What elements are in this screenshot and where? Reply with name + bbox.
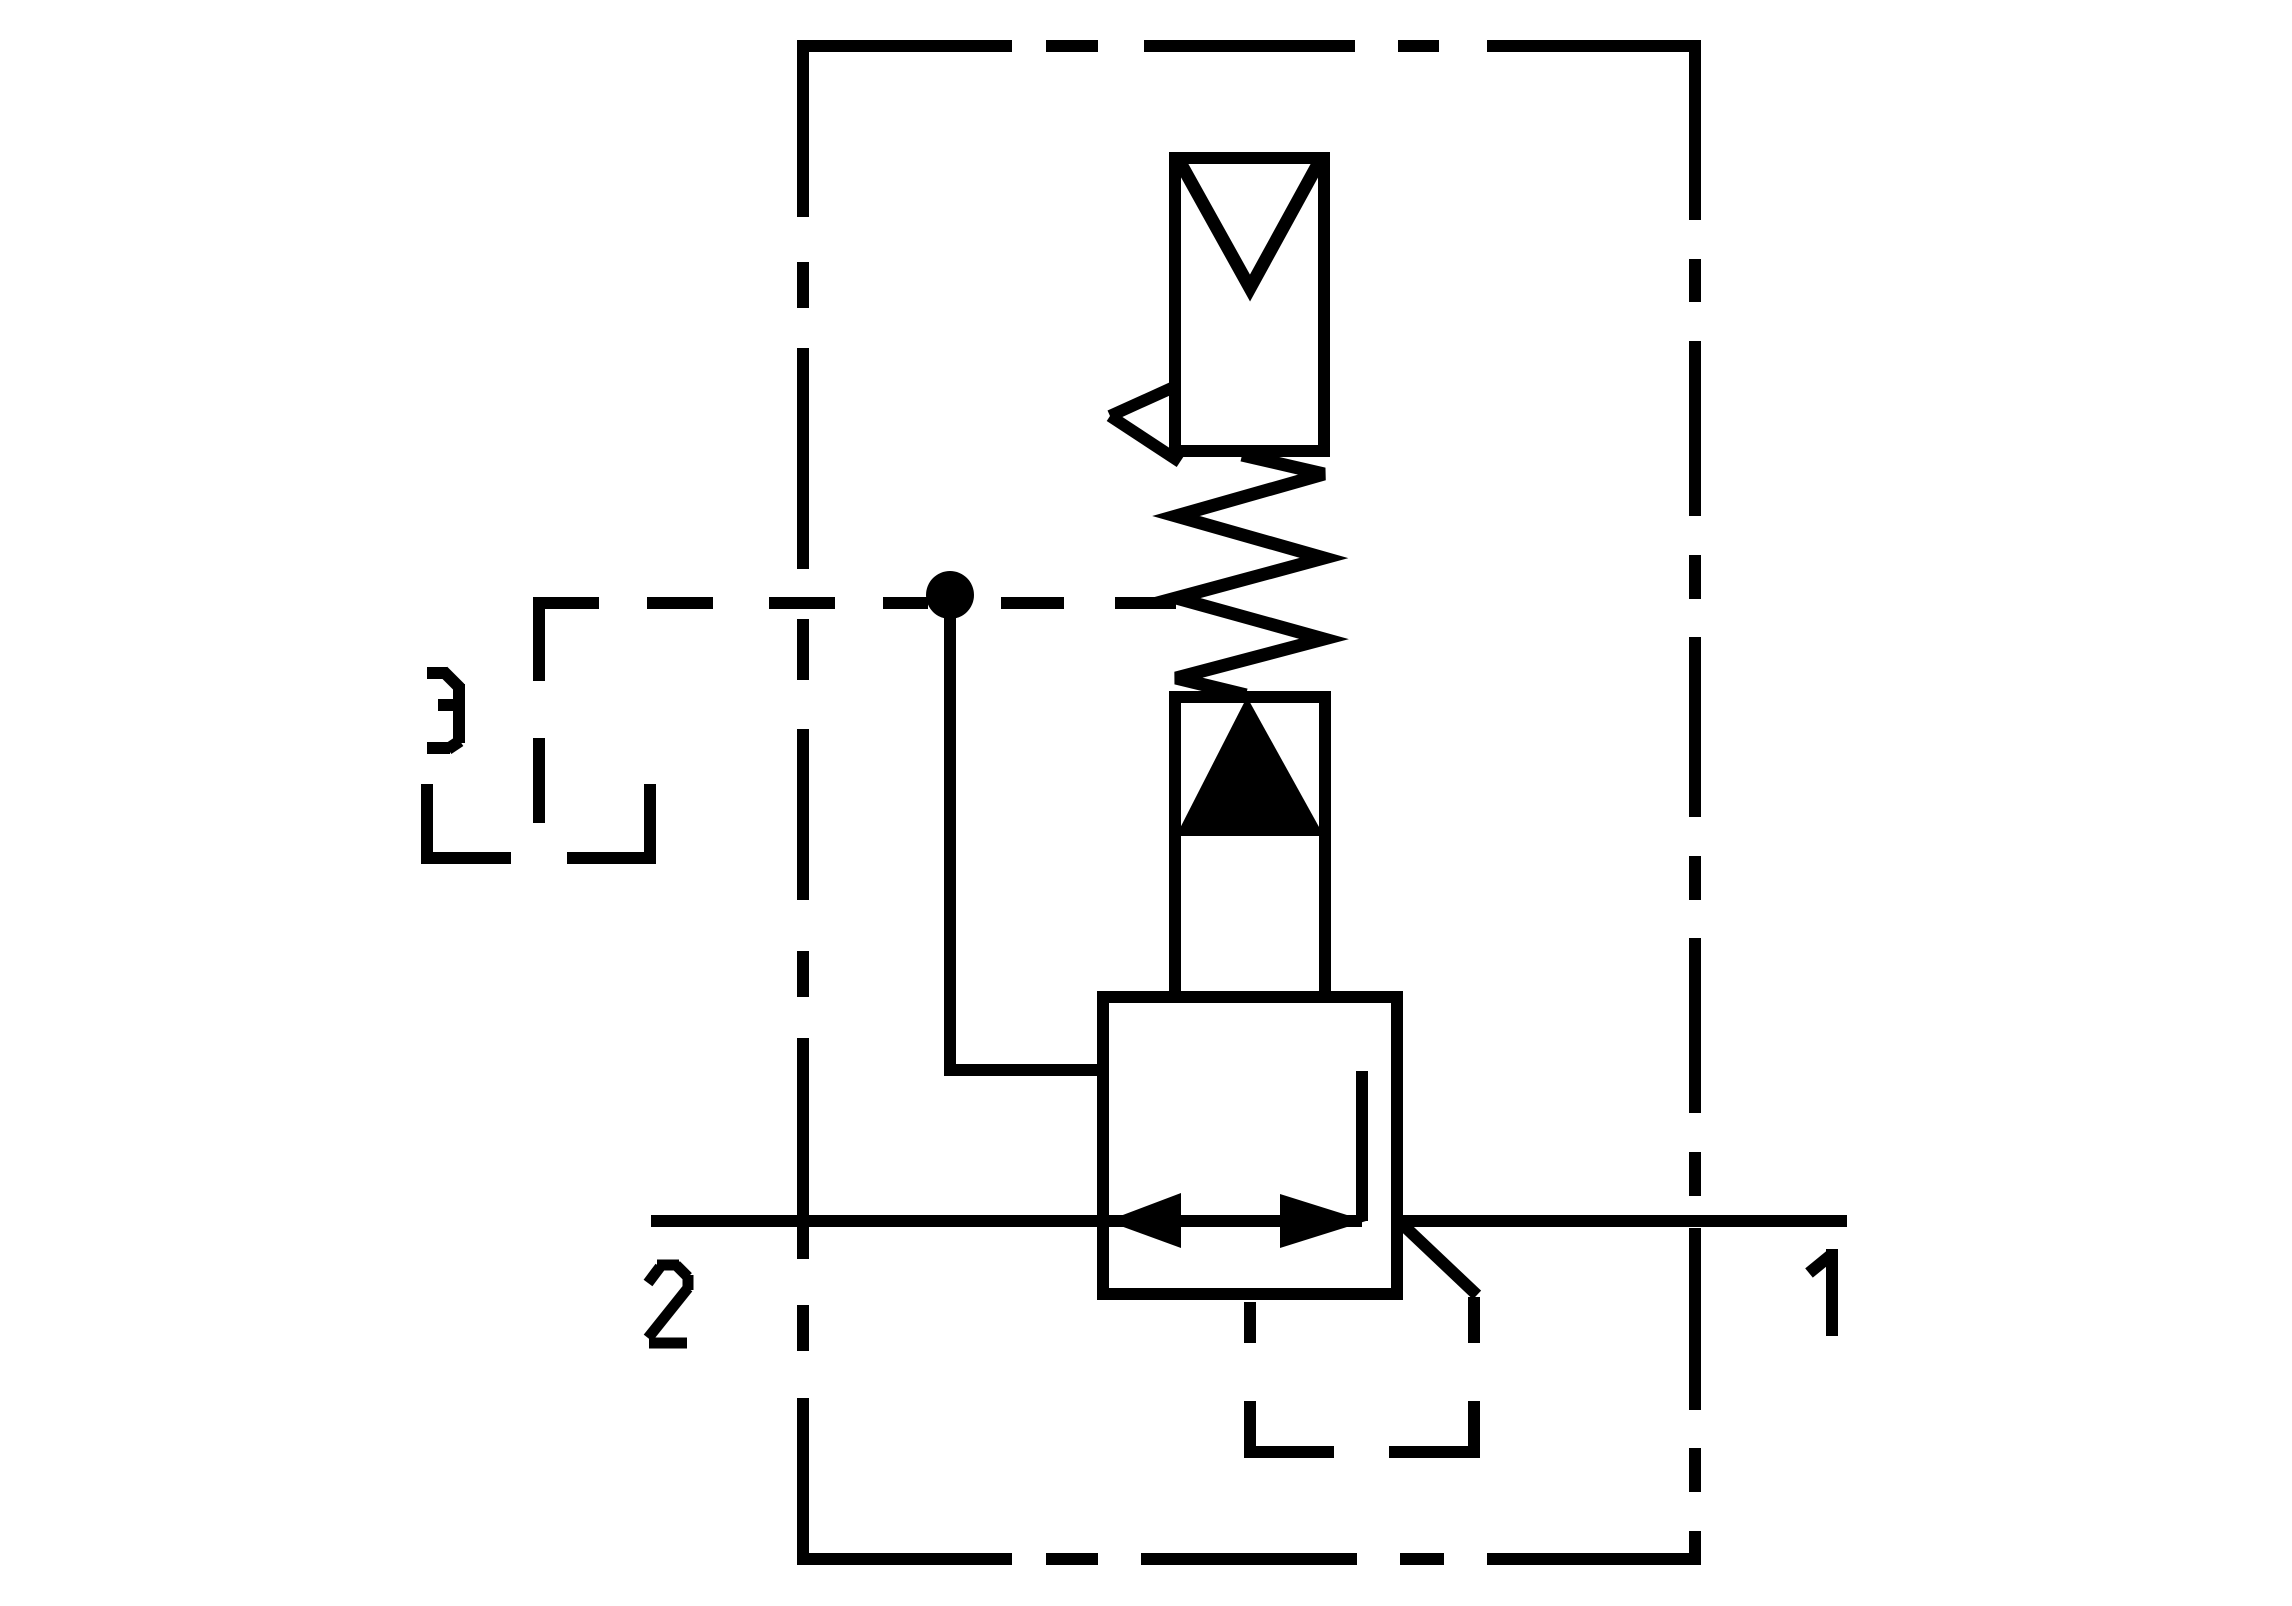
internal blocked path vertical (1356, 1071, 1368, 1221)
port 3 vertical dash (533, 738, 545, 823)
pilot dashed line segments (647, 597, 1176, 609)
port label 2 (648, 1265, 688, 1343)
valve envelope right border (dash-dot) (1689, 40, 1701, 1565)
pilot poppet box (1175, 697, 1325, 997)
pilot junction node (926, 571, 974, 619)
pilot poppet (filled triangle) (1176, 697, 1324, 836)
pilot dashed line to port 3, corner piece (539, 603, 599, 681)
drain diagonal (1402, 1224, 1477, 1295)
port 2 line and internal flow line (651, 1215, 1362, 1227)
port label 3 (427, 671, 460, 749)
flow arrowhead right (1280, 1194, 1366, 1248)
main valve body (1103, 997, 1397, 1294)
spring (1176, 455, 1324, 695)
port 3 vent cup right (567, 784, 650, 858)
pilot solid line from node to main body (950, 598, 1103, 1070)
flow arrowhead left (1107, 1193, 1181, 1248)
valve envelope top border (dash-dot) (797, 40, 1701, 52)
valve envelope bottom border (dash-dot) (797, 1553, 1701, 1565)
port label 1 (1809, 1249, 1832, 1336)
adjustment cap V notch (1181, 164, 1318, 288)
port 3 vent cup left (427, 784, 511, 858)
drain cup dashes left (1244, 1302, 1256, 1343)
port 1 line (1397, 1215, 1847, 1227)
valve envelope left border (dash-dot) (797, 40, 809, 1565)
adjustment cap box (1175, 158, 1324, 451)
drain cup dashes right (1468, 1297, 1480, 1343)
adjustment arrow head (1110, 387, 1174, 416)
